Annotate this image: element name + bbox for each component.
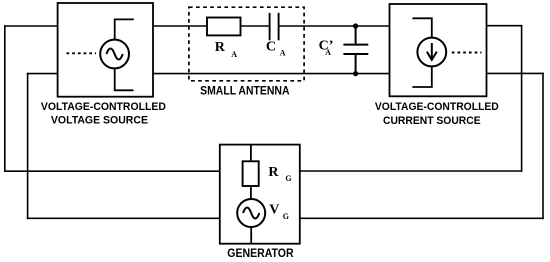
label C'A [319,39,334,57]
label VG [269,203,289,221]
VCVS terminal stub bottom [115,68,134,90]
antenna dashed box [189,7,304,81]
wire generator top to RG [250,145,252,162]
svg-text:G: G [283,212,289,221]
label RA [215,40,238,59]
wire bottom rail from inner-left loop to VCVS [27,73,58,75]
VCCS terminal stub top [412,18,431,38]
wire right outer vertical 1 [521,25,523,172]
wire bottom rail VCVS to VCCS [153,73,390,75]
svg-text:R: R [215,40,226,55]
VCCS terminal stub bottom [412,66,431,87]
VCVS terminal stub top [115,19,134,39]
svg-text:G: G [285,174,291,183]
label RG [268,165,291,183]
VCCS block box U2 [390,4,487,96]
resistor RG [243,161,259,186]
wire inner-left vertical [27,73,29,219]
capacitor C'A shunt [343,26,368,74]
wire top rail capacitor CA to node and VCCS [279,25,389,27]
resistor RA [207,18,241,36]
svg-text:R: R [268,165,279,180]
wire bottom rail VCCS to right loop [487,72,544,74]
label CA [266,40,286,58]
wire lower-right horizontal 2 to generator [300,217,544,219]
wire lower-left horizontal to generator [4,170,220,172]
svg-text:A: A [231,50,237,59]
current source symbol in VCCS [417,38,446,67]
wire RG to VG [250,186,252,199]
svg-text:A: A [325,48,331,57]
wire top rail VCVS to antenna resistor [153,25,207,27]
AC source VG symbol [237,199,265,227]
wire lower-right horizontal 1 to generator [300,170,523,172]
control-sense dotted line in VCCS [452,52,482,54]
svg-text:C: C [266,40,276,55]
wire lower inner-left horizontal to generator [27,217,220,219]
capacitor CA [270,13,279,40]
node dot top [353,23,358,28]
VCVS block box U1 [58,3,153,97]
svg-text:VOLTAGE-CONTROLLED: VOLTAGE-CONTROLLED [41,101,166,113]
AC voltage source symbol in VCVS [100,40,129,69]
wire VG to generator bottom [250,227,252,244]
label VOLTAGE-CONTROLLED VOLTAGE SOURCE [41,101,166,126]
control-sense dotted line in VCVS [67,52,97,54]
generator block box [220,145,300,244]
wire top rail resistor to capacitor CA [241,25,269,27]
node dot bottom [353,71,358,76]
svg-text:GENERATOR: GENERATOR [227,246,293,260]
wire left outer vertical [4,25,6,172]
label VOLTAGE-CONTROLLED CURRENT SOURCE [375,101,499,127]
svg-text:A: A [280,49,286,58]
wire top rail VCCS to right loop [487,25,523,27]
wire top rail from left loop to VCVS [4,25,58,27]
svg-text:CURRENT SOURCE: CURRENT SOURCE [383,115,481,127]
svg-text:V: V [269,203,279,218]
wire right outer vertical 2 [542,73,544,220]
svg-text:VOLTAGE-CONTROLLED: VOLTAGE-CONTROLLED [375,101,499,113]
svg-text:VOLTAGE SOURCE: VOLTAGE SOURCE [51,115,148,127]
svg-text:SMALL ANTENNA: SMALL ANTENNA [200,84,290,97]
